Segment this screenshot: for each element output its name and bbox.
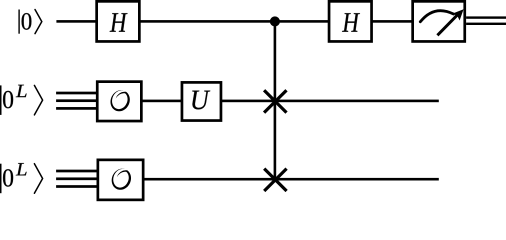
gate H2 — [329, 1, 372, 41]
control dot — [270, 16, 280, 26]
vertical control wire — [274, 21, 277, 179]
ket |0^L> qubit 3 — [0, 163, 43, 193]
wire qubit 3 — [143, 178, 439, 181]
triple bundle wire qubit 2 — [56, 92, 97, 110]
measurement meter — [413, 1, 465, 41]
classical double wire — [466, 16, 506, 25]
triple bundle wire qubit 3 — [56, 170, 98, 188]
wire qubit 2 — [141, 100, 439, 103]
gate O oracle qubit 3 — [98, 160, 143, 200]
swap cross qubit 2 — [264, 90, 286, 112]
gate U — [182, 82, 221, 120]
ket |0> qubit 1 — [18, 10, 41, 34]
swap cross qubit 3 — [264, 169, 286, 191]
gate H1 — [97, 1, 140, 41]
gate O oracle qubit 2 — [97, 82, 141, 121]
ket |0^L> qubit 2 — [0, 85, 43, 115]
wire qubit 1 — [56, 20, 413, 23]
